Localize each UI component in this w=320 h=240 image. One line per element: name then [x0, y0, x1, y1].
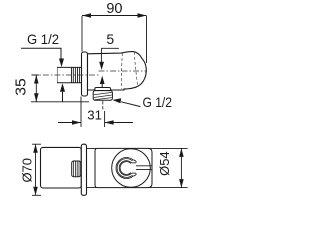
dimension diameter 70 ticks	[32, 144, 41, 195]
dimension 90 right arrow	[138, 13, 147, 18]
dimension 5 shelf line	[101, 48, 119, 62]
dimension 31 left line and arrow	[58, 122, 81, 124]
hose outlet knurl lines	[94, 92, 112, 99]
plan view: C-ring upper hook	[132, 160, 136, 163]
label G 1/2 inlet up arrow shaft	[62, 92, 64, 102]
dimension diameter 54 line	[180, 148, 182, 187]
label G 1/2 inlet leader line	[21, 48, 61, 59]
hose outlet flange	[95, 88, 111, 91]
holder axis centerline	[99, 70, 148, 72]
dimension 35 bottom reference line	[31, 101, 89, 103]
wall pipe thread boundary	[71, 67, 73, 82]
dimension diameter 70 line	[35, 144, 37, 195]
plan view: C-ring lower hook	[132, 173, 136, 176]
escutcheon side view	[82, 52, 88, 96]
hose outlet axis stub	[102, 101, 104, 110]
dimension 35 line	[35, 75, 37, 102]
plan view: slot lines	[136, 166, 152, 170]
dimension 90 line	[82, 15, 147, 17]
wall pipe (inlet nipple)	[57, 67, 82, 82]
pipe centerline	[31, 74, 100, 76]
svg-text:35: 35	[14, 78, 30, 96]
plan view: escutcheon disc edge-on	[81, 144, 86, 195]
svg-text:G 1/2: G 1/2	[143, 94, 173, 110]
label G 1/2 outlet leader	[121, 102, 141, 107]
dimension 5 down arrow	[99, 62, 104, 70]
dimension 35 up arrow	[34, 75, 39, 84]
plan view: C-ring outer edge arc	[116, 158, 133, 179]
dimension diameter 70 down arrow	[33, 187, 38, 196]
dimension diameter 54 down arrow	[179, 179, 184, 188]
dimension 31 right line and arrow	[105, 122, 133, 124]
dimension 31 left extension line	[80, 97, 82, 128]
wall pipe thread hatch	[73, 68, 79, 83]
dimension 5 up arrow shaft	[101, 84, 103, 88]
svg-text:90: 90	[106, 1, 122, 17]
dimension 90 left extension line	[81, 16, 83, 52]
label G 1/2 inlet up arrow	[60, 83, 65, 92]
label G 1/2 outlet arrow	[112, 98, 121, 103]
plan view: holder arm top edge	[87, 147, 188, 149]
plan view: C-ring bore arc	[120, 162, 131, 175]
holder body side view	[88, 52, 147, 90]
svg-text:Ø54: Ø54	[157, 151, 172, 176]
plan view: C-ring outer inner-edge arc	[117, 159, 132, 178]
dimension diameter 54 up arrow	[179, 148, 184, 157]
plan view: holder head outline	[95, 148, 152, 187]
label G 1/2 inlet down arrow	[59, 59, 64, 68]
holder body hidden arc 1	[121, 53, 122, 89]
hose outlet knurled nut	[93, 91, 112, 101]
plan view: body housing	[41, 147, 82, 188]
svg-text:G 1/2: G 1/2	[27, 31, 59, 47]
svg-text:5: 5	[106, 31, 114, 47]
svg-text:31: 31	[87, 108, 102, 123]
svg-text:Ø70: Ø70	[20, 158, 35, 183]
dimension 35 down arrow	[34, 93, 39, 102]
plan view: C-ring inner edge arc	[119, 161, 131, 176]
dimension 90 right extension line	[146, 16, 148, 63]
dimension 5 up arrow	[100, 76, 105, 84]
dimension diameter 70 up arrow	[33, 144, 38, 153]
dimension 35 top tick	[32, 74, 40, 76]
plan view: holder cup circle	[112, 149, 151, 188]
plan view: holder arm bottom edge	[87, 187, 188, 189]
holder body hidden arc 2	[134, 52, 138, 87]
plan view: outlet knob end-on	[72, 161, 81, 177]
plan view: outlet knob knurl	[74, 161, 79, 176]
dimension 31 right extension line	[104, 111, 106, 127]
dimension 90 left arrow	[82, 13, 91, 18]
